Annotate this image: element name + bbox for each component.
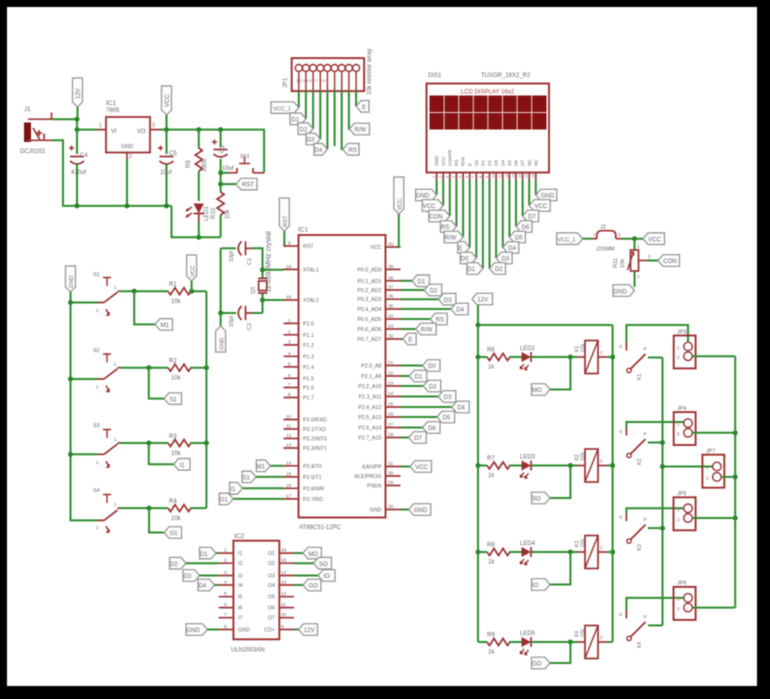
svg-text:D0: D0: [428, 364, 436, 370]
svg-text:R7: R7: [487, 456, 495, 462]
svg-text:P3.4/T0: P3.4/T0: [303, 464, 322, 470]
svg-text:M1: M1: [161, 323, 170, 329]
svg-text:S1: S1: [93, 272, 100, 278]
label tag D2 (array): [298, 123, 313, 135]
svg-text:11: 11: [286, 424, 291, 430]
svg-text:M1: M1: [257, 465, 266, 471]
svg-text:24: 24: [388, 391, 394, 397]
svg-text:2: 2: [288, 329, 291, 335]
svg-text:P: P: [644, 347, 647, 353]
svg-text:25: 25: [388, 402, 394, 408]
svg-text:P0.3_AD3: P0.3_AD3: [357, 297, 381, 303]
svg-text:20: 20: [388, 504, 394, 510]
svg-text:15: 15: [525, 174, 529, 178]
svg-text:JP1: JP1: [283, 77, 289, 88]
label tag S1 (switch 2 node): [149, 368, 182, 405]
svg-text:33: 33: [388, 324, 394, 330]
svg-text:5: 5: [288, 361, 291, 367]
resistor R4 10k: [168, 499, 206, 522]
wire array pin4: [319, 91, 321, 140]
svg-text:D3: D3: [444, 298, 452, 304]
svg-text:1k: 1k: [488, 560, 495, 566]
jumper J2: [592, 225, 621, 253]
svg-text:22: 22: [388, 371, 394, 377]
svg-text:P3.1/TXD: P3.1/TXD: [303, 427, 326, 433]
svg-text:10uf: 10uf: [222, 166, 234, 172]
svg-text:GND: GND: [434, 155, 439, 166]
svg-text:O6: O6: [268, 606, 275, 612]
svg-text:GND: GND: [219, 338, 225, 350]
svg-text:330E: 330E: [202, 158, 208, 172]
svg-text:IO: IO: [324, 574, 331, 580]
svg-text:P0.5_AD5: P0.5_AD5: [357, 317, 381, 323]
svg-text:RS: RS: [349, 148, 357, 154]
svg-text:NC: NC: [527, 159, 532, 166]
svg-text:SO: SO: [319, 562, 328, 568]
push button S01 (reset): [221, 154, 265, 173]
svg-text:10: 10: [492, 174, 496, 178]
svg-text:VI: VI: [111, 129, 117, 135]
label tag CON (pot wiper): [647, 255, 680, 267]
svg-text:4: 4: [224, 580, 227, 586]
label tag D4 (IC2 I4): [198, 579, 219, 591]
driver IC2 ULN2003AN: [231, 533, 279, 654]
svg-text:G5L: G5L: [581, 342, 587, 352]
svg-text:P: P: [644, 432, 647, 438]
svg-text:15: 15: [286, 471, 292, 477]
svg-text:10: 10: [286, 414, 292, 420]
wire LCD pin6 + label tag E: [458, 180, 470, 253]
IC2 left pin stubs: [219, 553, 234, 629]
svg-text:R/W: R/W: [355, 128, 367, 134]
label tag D4 (array): [314, 144, 327, 156]
wire array pin5: [326, 91, 328, 150]
svg-text:S3: S3: [93, 423, 100, 429]
label tag D2 (MCU pin 37): [401, 284, 442, 296]
label tag GO (IC2 O4): [294, 579, 321, 591]
wire ground rail step: [172, 206, 221, 237]
label tag D5 (MCU pin 26): [401, 411, 455, 423]
svg-text:6: 6: [465, 176, 469, 178]
svg-text:P3.0/RXD: P3.0/RXD: [303, 418, 327, 424]
resistor R1 10k: [168, 282, 206, 305]
resistor R6 1k: [478, 348, 510, 371]
node K3 coil junction: [568, 550, 573, 555]
wire crystal cap ground rail: [220, 248, 222, 326]
wire common rail to JP7 pin1: [663, 466, 713, 468]
svg-text:11.0592MHz crystal: 11.0592MHz crystal: [266, 231, 273, 293]
label tag D4 (MCU pin 35): [401, 303, 469, 315]
label tag D1 (IC2 I1): [200, 547, 219, 559]
potentiometer R11 10k: [613, 239, 651, 287]
wire S3 to R3: [120, 442, 168, 444]
svg-text:3: 3: [224, 570, 227, 576]
switch S3: [71, 423, 121, 467]
svg-text:PSEN: PSEN: [367, 484, 382, 490]
svg-text:7: 7: [472, 176, 476, 178]
LED2: [509, 346, 577, 370]
svg-text:G1: G1: [220, 498, 229, 504]
svg-text:I1: I1: [180, 463, 186, 469]
LED4: [509, 541, 577, 565]
svg-text:J1: J1: [24, 106, 31, 113]
svg-text:1: 1: [432, 176, 436, 178]
svg-text:I7: I7: [238, 616, 242, 622]
svg-text:P0.7_AD7: P0.7_AD7: [357, 337, 381, 343]
svg-text:P3.7/RD: P3.7/RD: [303, 497, 323, 503]
svg-text:8: 8: [224, 624, 227, 630]
svg-text:VCC: VCC: [648, 237, 661, 243]
svg-text:D6: D6: [428, 426, 436, 432]
svg-text:VCC: VCC: [535, 204, 548, 210]
svg-text:16: 16: [281, 548, 287, 554]
wire VCC output rail: [160, 130, 264, 173]
wire JP7 pin2 to common rail: [721, 476, 735, 478]
svg-text:C4: C4: [80, 153, 88, 159]
label tag S1 (MCU pin 15): [242, 471, 284, 483]
wire switch common left rail: [71, 292, 98, 520]
svg-text:D2: D2: [430, 289, 438, 295]
svg-text:GND: GND: [414, 508, 428, 514]
label tag R/W (array): [349, 123, 369, 135]
label tag GO (K4 coil node): [532, 642, 571, 669]
wire JP5 pin2 to common rail: [692, 517, 735, 519]
svg-text:1k: 1k: [488, 473, 495, 479]
svg-text:JP6: JP6: [677, 581, 686, 587]
svg-text:1: 1: [288, 318, 291, 324]
svg-text:E: E: [467, 163, 472, 166]
svg-text:P2.1_A9: P2.1_A9: [361, 374, 381, 380]
svg-text:7: 7: [288, 382, 291, 388]
svg-text:GND: GND: [238, 628, 250, 634]
wire LCD pin15 + label tag VCC: [529, 180, 550, 211]
wire LCD pin10 + label tag D3: [496, 180, 512, 264]
label tag SO (IC2 O2): [294, 557, 332, 569]
label tag VCC_1: [557, 233, 592, 245]
wire J1 pin1 to regulator input: [52, 119, 97, 129]
MCU left pin names: [303, 244, 327, 503]
svg-text:D3: D3: [502, 257, 510, 263]
svg-text:16: 16: [286, 483, 292, 489]
svg-text:13: 13: [286, 443, 292, 449]
svg-text:Q1: Q1: [251, 287, 257, 294]
svg-text:P1.2: P1.2: [303, 343, 314, 349]
label tag MO (IC2 O1): [294, 547, 321, 559]
svg-text:29: 29: [388, 480, 394, 486]
label tag RS (array): [343, 144, 359, 156]
svg-text:P2.5_A13: P2.5_A13: [358, 415, 381, 421]
label tag D6 (MCU pin 27): [401, 422, 441, 434]
svg-text:VO: VO: [137, 129, 146, 135]
svg-text:AT89C51-12PC: AT89C51-12PC: [299, 525, 342, 531]
svg-text:R1: R1: [169, 282, 177, 288]
svg-text:LED2: LED2: [520, 346, 536, 352]
wire output common right rail: [734, 356, 736, 607]
wire array pin1: [298, 91, 300, 108]
label tag D3 (array): [306, 133, 320, 145]
svg-text:D2: D2: [300, 127, 308, 133]
switch S2: [71, 348, 121, 392]
svg-text:D5: D5: [507, 160, 512, 166]
svg-text:NC: NC: [533, 159, 538, 166]
svg-text:9: 9: [281, 624, 284, 630]
svg-text:E: E: [408, 338, 412, 344]
svg-text:C3: C3: [220, 145, 226, 153]
LCD pin stubs: [437, 173, 536, 181]
svg-text:3: 3: [152, 123, 155, 129]
svg-text:P1.1: P1.1: [303, 333, 314, 339]
svg-text:G5L: G5L: [581, 537, 587, 547]
svg-text:12: 12: [505, 174, 509, 178]
node junction R1/VCC: [189, 289, 194, 294]
svg-text:10k: 10k: [620, 259, 626, 268]
wire regulator GND pin to rail: [126, 159, 128, 206]
svg-text:P: P: [644, 517, 647, 523]
svg-text:D7: D7: [414, 436, 422, 442]
wire LCD pin9 + label tag D2: [490, 180, 506, 274]
svg-text:18: 18: [286, 295, 292, 301]
svg-text:RS: RS: [454, 160, 459, 166]
svg-text:CD+: CD+: [264, 628, 275, 634]
svg-text:P1.3: P1.3: [303, 354, 314, 360]
node GND junction C4: [75, 203, 80, 208]
svg-text:VCC: VCC: [190, 265, 196, 277]
wire J1 pin3 to ground rail: [52, 140, 172, 206]
svg-text:R6: R6: [487, 348, 495, 354]
svg-text:P0.0_AD0: P0.0_AD0: [357, 267, 381, 273]
svg-text:2: 2: [224, 558, 227, 564]
LCD pin names: [434, 149, 538, 166]
svg-text:D0: D0: [461, 257, 469, 263]
connector JP1 resistor array: [283, 49, 373, 95]
relay coil K1 G5L: [575, 341, 613, 374]
svg-text:1: 1: [99, 123, 102, 129]
svg-text:4: 4: [452, 176, 456, 178]
svg-text:GND: GND: [121, 144, 133, 150]
supply tag VCC (vertical above MCU pin 40): [394, 177, 404, 247]
svg-text:26: 26: [388, 412, 394, 418]
svg-text:GND: GND: [370, 508, 382, 514]
svg-text:R2: R2: [169, 359, 177, 365]
svg-text:D2: D2: [495, 267, 503, 273]
svg-text:C5: C5: [169, 151, 177, 157]
svg-text:G5L: G5L: [581, 451, 587, 461]
svg-text:R/W: R/W: [461, 156, 466, 166]
wire array pin3: [312, 91, 314, 129]
wire S1 to R1: [120, 290, 168, 292]
resistor R3 10k: [168, 434, 206, 457]
svg-text:IC1: IC1: [106, 100, 117, 107]
label tag D0 (MCU pin 21): [401, 360, 441, 372]
svg-text:DIS1: DIS1: [428, 73, 442, 79]
svg-text:I1: I1: [238, 551, 242, 557]
svg-text:37: 37: [388, 285, 394, 291]
MCU right pin numbers: [388, 242, 394, 511]
label tag D3 (MCU pin 36): [401, 293, 456, 305]
svg-text:J2SMM: J2SMM: [596, 247, 615, 253]
svg-text:38: 38: [388, 275, 394, 281]
connector JP4: [674, 406, 696, 445]
svg-text:JP5: JP5: [677, 491, 686, 497]
svg-text:D3: D3: [494, 160, 499, 166]
label tag G1 (switch 4 node): [149, 508, 181, 538]
IC2 right pin stubs: [279, 553, 294, 629]
svg-text:GND: GND: [69, 276, 75, 288]
label tag GND (pot bottom): [613, 285, 635, 297]
svg-text:3: 3: [445, 176, 449, 178]
svg-text:VCC: VCC: [370, 245, 381, 251]
label tag IO (K3 coil node): [532, 552, 571, 590]
svg-text:LCD DISPLAY 16x2: LCD DISPLAY 16x2: [461, 90, 515, 96]
svg-text:R10: R10: [211, 207, 217, 219]
wire 12V left rail: [477, 325, 479, 642]
svg-text:MO: MO: [308, 552, 318, 558]
svg-text:D2: D2: [170, 562, 178, 568]
label tag VCC (MCU pin 31): [401, 461, 432, 473]
svg-text:GND: GND: [541, 194, 555, 200]
relay coil K2 G5L: [575, 449, 613, 482]
svg-text:LED4: LED4: [520, 541, 536, 547]
switch S1: [71, 272, 121, 315]
svg-text:30: 30: [388, 471, 394, 477]
svg-text:10k: 10k: [171, 451, 182, 457]
svg-text:LED1: LED1: [204, 205, 210, 221]
node K1 coil junction: [568, 355, 573, 360]
svg-text:10uf: 10uf: [160, 170, 172, 176]
svg-text:I2: I2: [238, 561, 242, 567]
svg-text:8: 8: [288, 392, 291, 398]
svg-text:I4: I4: [238, 583, 242, 589]
capacitor C4 470uf: [69, 130, 88, 206]
wire LCD pin14 + label tag D7: [523, 180, 539, 222]
svg-text:P1.5: P1.5: [303, 376, 314, 382]
svg-text:13: 13: [281, 580, 287, 586]
svg-text:P0.4_AD4: P0.4_AD4: [357, 307, 381, 313]
svg-text:TUXGR_16X2_R2: TUXGR_16X2_R2: [481, 73, 531, 79]
wire LCD pin16 + label tag GND: [536, 180, 557, 201]
svg-text:K1: K1: [637, 374, 643, 380]
svg-text:S: S: [619, 612, 622, 618]
svg-text:E: E: [458, 246, 462, 252]
svg-text:RST: RST: [303, 244, 314, 250]
svg-text:P: P: [644, 614, 647, 620]
svg-text:D1: D1: [200, 552, 208, 558]
wire LCD pin7 + label tag D0: [460, 180, 476, 264]
node junction at 12V input: [75, 117, 80, 122]
label tag RST (vertical above MCU pin 9): [279, 198, 289, 246]
svg-text:13: 13: [511, 174, 515, 178]
label tag R/W (MCU pin 33): [401, 323, 437, 335]
MCU right pin stubs: [386, 247, 401, 510]
crystal Q1 11.0592MHz: [251, 231, 273, 313]
svg-text:27: 27: [388, 422, 394, 428]
connector JP6: [674, 581, 696, 620]
svg-text:D1: D1: [418, 280, 426, 286]
svg-text:16: 16: [531, 174, 535, 178]
svg-text:VCC_1: VCC_1: [558, 237, 576, 243]
svg-text:D4: D4: [500, 160, 505, 166]
label tag E (array): [356, 101, 369, 113]
svg-text:23: 23: [388, 381, 394, 387]
svg-text:6: 6: [288, 373, 291, 379]
label tag MO (K1 coil node): [532, 357, 571, 395]
svg-text:VCC: VCC: [441, 156, 446, 166]
svg-text:P0.1_AD1: P0.1_AD1: [357, 279, 381, 285]
svg-text:D7: D7: [520, 160, 525, 166]
svg-text:CON: CON: [429, 215, 442, 221]
wire JP3 pin2 to common rail: [692, 355, 735, 357]
svg-text:VCC: VCC: [165, 94, 171, 107]
svg-text:12: 12: [281, 591, 287, 597]
wire LCD pin13 + label tag D6: [516, 180, 532, 232]
svg-text:D4: D4: [315, 148, 323, 154]
wire LCD pin8 + label tag D1: [467, 180, 483, 274]
svg-text:IO: IO: [532, 583, 539, 589]
label tag I1 (switch 3 node): [149, 443, 190, 470]
wire pull-up right rail: [205, 291, 207, 508]
label tag D3 (IC2 I3): [183, 570, 219, 582]
svg-text:P2.4_A12: P2.4_A12: [358, 405, 381, 411]
svg-text:JP4: JP4: [677, 406, 686, 412]
svg-text:4: 4: [288, 351, 291, 357]
svg-text:R8: R8: [487, 543, 495, 549]
svg-text:P1.7: P1.7: [303, 396, 314, 402]
svg-text:JP7: JP7: [706, 449, 715, 455]
node RST junction: [218, 170, 223, 175]
capacitor C2 33pf: [221, 306, 263, 330]
MCU right pin names: [354, 245, 382, 514]
svg-text:10k: 10k: [171, 299, 182, 305]
svg-text:VCC: VCC: [415, 465, 428, 471]
svg-text:7805: 7805: [106, 108, 120, 114]
svg-text:O4: O4: [268, 583, 275, 589]
switch S4: [93, 488, 120, 532]
svg-text:19: 19: [286, 264, 292, 270]
svg-text:P0.6_AD6: P0.6_AD6: [357, 327, 381, 333]
svg-text:10: 10: [281, 612, 287, 618]
svg-text:1k: 1k: [488, 650, 495, 656]
label tag RS (MCU pin 34): [401, 313, 448, 325]
svg-text:D7: D7: [528, 215, 536, 221]
supply tag 12V (relay rail): [472, 293, 493, 325]
svg-text:21: 21: [388, 360, 394, 366]
svg-text:14: 14: [286, 460, 292, 466]
svg-text:R/W: R/W: [421, 328, 433, 334]
label tag D7 (MCU pin 28): [401, 432, 427, 444]
relay coil K4 G5L: [575, 626, 613, 659]
relay contact K2: [619, 422, 684, 465]
svg-text:S: S: [619, 344, 622, 350]
label tag SO (K2 coil node): [532, 466, 571, 504]
svg-text:3: 3: [288, 339, 291, 345]
resistor R5 330E: [186, 130, 208, 201]
wire S4 to R4: [120, 507, 168, 509]
svg-text:5: 5: [459, 176, 463, 178]
svg-text:15: 15: [281, 558, 287, 564]
label tag GND (IC2 pin 8): [186, 624, 219, 636]
resistor R7 1k: [478, 456, 510, 479]
svg-text:GND: GND: [187, 628, 201, 634]
wire array pin8: [348, 91, 351, 130]
svg-text:10k: 10k: [171, 376, 182, 382]
svg-text:11: 11: [498, 174, 502, 178]
svg-text:D1: D1: [467, 267, 475, 273]
svg-text:E: E: [362, 105, 366, 111]
connector J1 (DC jack DCJ0202): [20, 106, 52, 155]
svg-text:O1: O1: [268, 551, 275, 557]
node K2 coil junction: [568, 463, 573, 468]
svg-text:7: 7: [224, 612, 227, 618]
